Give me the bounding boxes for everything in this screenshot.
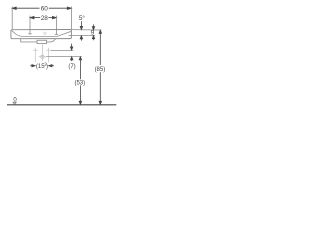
extension line left of 60 xyxy=(11,7,13,30)
supply cross right xyxy=(46,49,51,51)
dimension (7) xyxy=(70,44,73,62)
overflow circle xyxy=(44,32,46,34)
dimension 28 tap holes xyxy=(30,16,56,18)
supply cross left xyxy=(33,49,38,51)
svg-text:(85): (85) xyxy=(95,67,106,73)
svg-text:9: 9 xyxy=(91,30,95,37)
supply centerline right xyxy=(48,48,50,62)
washbasin bowl interior curve xyxy=(11,30,71,36)
extension line rim front xyxy=(71,35,95,37)
extension line top right (rim back) xyxy=(71,29,101,31)
dimension (85) xyxy=(99,30,101,104)
dimension 9 xyxy=(92,24,94,40)
rim front edge segment xyxy=(69,35,72,37)
washbasin outline front view xyxy=(11,30,72,39)
supply line extending right xyxy=(51,49,73,51)
floor line xyxy=(7,104,116,106)
svg-text:): ) xyxy=(46,64,48,70)
tap hole centerline right xyxy=(55,16,57,35)
drain flange box xyxy=(37,40,47,43)
tap hole cross right xyxy=(55,33,58,35)
dimension (15 s) between supplies xyxy=(30,65,54,67)
dimension 60 top xyxy=(12,7,71,9)
extension line right of 60 xyxy=(70,7,72,30)
supply centerline left xyxy=(34,48,36,62)
tap hole centerline left xyxy=(29,16,31,34)
svg-text:(7): (7) xyxy=(68,64,75,70)
datum triangle xyxy=(13,102,16,104)
siphon trap outline xyxy=(21,39,56,42)
drain symbol circle-cross xyxy=(38,44,46,61)
svg-text:(53): (53) xyxy=(74,81,85,87)
tap hole cross left xyxy=(28,33,31,35)
drain line extending right xyxy=(46,56,81,58)
dimension (53) xyxy=(79,57,81,105)
svg-text:5°: 5° xyxy=(79,14,86,22)
svg-text:60: 60 xyxy=(41,6,49,13)
svg-text:28: 28 xyxy=(41,15,49,22)
